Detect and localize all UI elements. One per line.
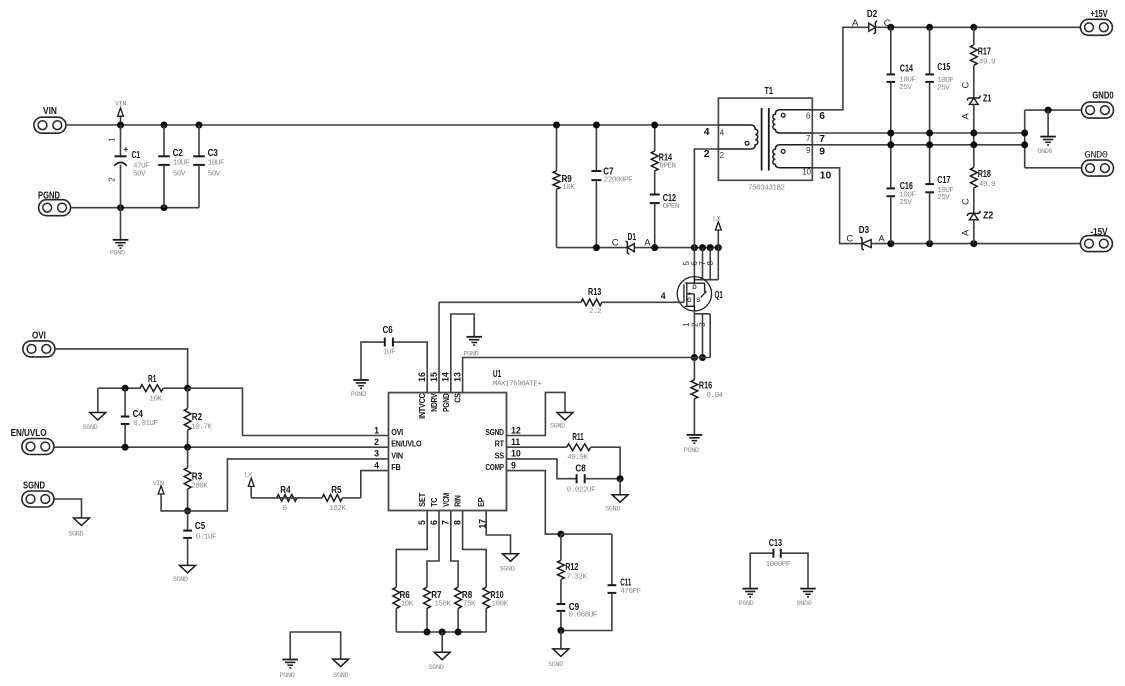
- svg-text:4: 4: [661, 291, 666, 301]
- svg-text:GND0: GND0: [797, 600, 812, 608]
- svg-text:T1: T1: [765, 85, 774, 97]
- junction: [715, 244, 722, 251]
- wire Q1 drain pin8: [717, 248, 719, 280]
- capacitor C17: [925, 145, 953, 244]
- ground SGND: [550, 413, 573, 431]
- svg-text:VIN: VIN: [391, 451, 403, 460]
- junction: [557, 627, 564, 634]
- junction: [691, 244, 698, 251]
- svg-text:11: 11: [511, 437, 520, 447]
- capacitor C3: [193, 125, 224, 208]
- junction: [926, 24, 933, 31]
- diode D1 (schottky): [612, 231, 651, 254]
- svg-text:12: 12: [511, 425, 521, 435]
- svg-text:10UF: 10UF: [173, 160, 189, 168]
- svg-text:NDRV: NDRV: [430, 393, 439, 412]
- svg-text:SGND: SGND: [605, 505, 620, 513]
- svg-text:S: S: [696, 298, 700, 304]
- svg-text:162K: 162K: [329, 505, 346, 513]
- svg-text:6: 6: [819, 111, 825, 122]
- svg-text:VIN: VIN: [115, 101, 126, 109]
- svg-text:D2: D2: [867, 8, 877, 20]
- T1 secondary winding 1: [773, 110, 812, 133]
- svg-text:SGND: SGND: [68, 531, 83, 539]
- junction: [617, 475, 624, 482]
- resistor R14: [651, 125, 675, 195]
- svg-text:50V: 50V: [133, 171, 146, 179]
- diode D3 (schottky): [846, 224, 885, 250]
- svg-text:22000PF: 22000PF: [604, 176, 632, 184]
- svg-text:C8: C8: [575, 462, 585, 474]
- svg-text:8: 8: [452, 520, 462, 525]
- svg-text:SGND: SGND: [23, 480, 45, 492]
- svg-text:C13: C13: [769, 537, 782, 549]
- svg-text:EP: EP: [477, 498, 486, 507]
- svg-text:RT: RT: [495, 440, 505, 449]
- svg-text:PGND: PGND: [280, 672, 295, 680]
- ground PGND (C6): [351, 380, 369, 399]
- svg-text:SS: SS: [495, 451, 504, 460]
- svg-text:10: 10: [511, 449, 521, 459]
- wire gnd tie right: [1024, 110, 1026, 168]
- svg-text:7.32K: 7.32K: [566, 573, 587, 581]
- svg-text:8: 8: [706, 261, 715, 266]
- svg-text:10: 10: [802, 167, 811, 176]
- svg-text:PGND: PGND: [739, 600, 754, 608]
- svg-text:7: 7: [441, 520, 451, 525]
- svg-text:10K: 10K: [149, 396, 162, 404]
- svg-text:100K: 100K: [492, 601, 509, 609]
- ground SGND: [429, 632, 451, 672]
- svg-text:R16: R16: [699, 379, 712, 391]
- wire GND0 stem: [1047, 110, 1049, 137]
- svg-text:10K: 10K: [401, 601, 414, 609]
- svg-text:25V: 25V: [899, 199, 912, 207]
- junction: [699, 354, 706, 361]
- svg-text:0.1UF: 0.1UF: [196, 533, 216, 541]
- ground SGND: [548, 631, 569, 670]
- svg-text:R13: R13: [588, 286, 601, 298]
- junction: [557, 531, 564, 538]
- svg-text:EN/UVLO: EN/UVLO: [11, 427, 47, 439]
- capacitor C13: [750, 537, 808, 589]
- junction: [1045, 107, 1052, 114]
- svg-text:VCM: VCM: [442, 493, 451, 507]
- svg-text:C16: C16: [900, 180, 913, 192]
- resistor R11: [507, 431, 621, 479]
- wire RIN: [463, 511, 487, 588]
- junction: [553, 122, 560, 129]
- ground SGND: [173, 538, 196, 584]
- junction: [161, 122, 168, 129]
- wire T1 pin6 to D2: [812, 27, 869, 110]
- wire COMP to C11: [561, 533, 612, 535]
- svg-text:Z2: Z2: [983, 210, 993, 222]
- power LX: [713, 215, 721, 247]
- resistor R6: [393, 587, 414, 632]
- svg-text:LX: LX: [244, 472, 252, 480]
- ground PGND (bridge): [280, 660, 298, 680]
- transistor Q1: [661, 261, 723, 327]
- op-amp U1 MAX17690: [374, 368, 542, 528]
- resistor R9: [553, 125, 575, 248]
- svg-text:A: A: [961, 229, 972, 236]
- svg-text:0.04: 0.04: [707, 392, 724, 400]
- T1 core: [761, 108, 763, 171]
- svg-text:47UF: 47UF: [133, 162, 149, 170]
- svg-text:R2: R2: [192, 411, 202, 423]
- wire to VIN pin: [188, 459, 389, 511]
- svg-text:OPEN: OPEN: [663, 203, 679, 211]
- T1 primary winding: [719, 125, 758, 149]
- transformer T1: [704, 85, 832, 193]
- ground PGND (C13): [739, 589, 758, 608]
- svg-text:C14: C14: [900, 63, 913, 75]
- capacitor C16: [887, 145, 916, 244]
- wire pin7 rail: [812, 132, 1024, 134]
- svg-text:3: 3: [374, 449, 379, 459]
- power VIN (R3): [153, 480, 188, 511]
- wire ground bridge: [290, 632, 341, 660]
- junction: [970, 24, 977, 31]
- svg-text:750343182: 750343182: [748, 185, 784, 193]
- junction: [455, 629, 462, 636]
- wire clamp rail right: [635, 247, 718, 249]
- ground PGND (input): [110, 240, 128, 258]
- svg-text:25V: 25V: [937, 194, 950, 202]
- svg-text:16: 16: [417, 372, 427, 382]
- svg-text:C6: C6: [383, 324, 393, 336]
- svg-text:4: 4: [720, 129, 725, 138]
- ground SGND: [500, 554, 519, 574]
- svg-text:C: C: [846, 234, 853, 245]
- wire Q1 drain pin7: [709, 248, 711, 280]
- wire EP: [486, 511, 510, 554]
- capacitor C5: [183, 511, 216, 541]
- wire Z2 anode: [973, 220, 975, 244]
- ground SGND: [83, 388, 106, 432]
- svg-text:R18: R18: [978, 168, 991, 180]
- wire EN/UVLO: [54, 446, 389, 448]
- wire +15V rail: [875, 26, 1080, 28]
- wire Q1 source pin3: [709, 314, 711, 358]
- resistor R12: [558, 534, 588, 604]
- wire SGND pigtail: [54, 499, 82, 518]
- svg-text:SGND: SGND: [429, 664, 444, 672]
- wire OVI: [55, 349, 188, 388]
- svg-text:15: 15: [429, 372, 439, 382]
- svg-text:PGND: PGND: [38, 189, 60, 201]
- junction: [593, 122, 600, 129]
- wire -15V rail: [871, 243, 1080, 245]
- wire Q1 drain: [693, 248, 695, 277]
- wire Z1 anode: [973, 104, 975, 133]
- svg-text:R7: R7: [431, 589, 441, 601]
- resistor R13: [439, 286, 684, 316]
- ground GND0: [1037, 137, 1056, 156]
- svg-text:C: C: [961, 81, 972, 88]
- svg-text:75K: 75K: [463, 601, 476, 609]
- svg-text:C3: C3: [208, 147, 218, 159]
- svg-text:SGND: SGND: [83, 424, 98, 432]
- svg-text:GND0: GND0: [1084, 149, 1107, 161]
- svg-text:U1: U1: [493, 368, 501, 380]
- svg-text:VIN: VIN: [153, 480, 164, 488]
- wire SET: [396, 511, 427, 588]
- svg-text:SGND: SGND: [550, 422, 565, 430]
- capacitor C12: [650, 192, 679, 248]
- svg-text:D: D: [692, 285, 697, 291]
- svg-text:Q1: Q1: [715, 289, 723, 301]
- junction: [887, 24, 894, 31]
- svg-text:A: A: [644, 237, 651, 248]
- svg-text:2: 2: [108, 177, 117, 182]
- svg-text:-15V: -15V: [1090, 226, 1107, 238]
- wire SGND pin: [507, 392, 566, 435]
- svg-text:COMP: COMP: [485, 463, 503, 472]
- junction: [887, 141, 894, 148]
- resistor R1: [125, 373, 188, 404]
- junction: [926, 240, 933, 247]
- svg-text:7: 7: [806, 134, 811, 143]
- svg-text:LX: LX: [713, 215, 721, 223]
- wire C9 bottom: [560, 611, 562, 631]
- junction: [161, 204, 168, 211]
- svg-text:A: A: [852, 18, 859, 29]
- svg-text:EN/UVLO: EN/UVLO: [391, 440, 421, 449]
- svg-text:0.068UF: 0.068UF: [569, 612, 597, 620]
- wire R4-R5: [297, 497, 322, 499]
- svg-text:9: 9: [819, 147, 825, 158]
- svg-text:2: 2: [720, 151, 725, 160]
- svg-text:5: 5: [417, 520, 427, 525]
- wire gnd tie C14 col: [890, 133, 892, 145]
- svg-text:10.7K: 10.7K: [191, 423, 212, 431]
- resistor R17: [970, 27, 995, 98]
- connector J-EN: [11, 427, 54, 455]
- svg-text:R12: R12: [565, 561, 578, 573]
- svg-text:C4: C4: [133, 408, 143, 420]
- svg-text:10UF: 10UF: [208, 160, 224, 168]
- svg-text:1: 1: [108, 137, 117, 142]
- svg-text:C15: C15: [937, 61, 950, 73]
- resistor R5: [322, 484, 361, 513]
- wire T1 pin2 to LX: [694, 149, 718, 248]
- connector J-VIN: [34, 105, 66, 133]
- resistor R8: [455, 587, 476, 632]
- svg-text:10K: 10K: [562, 184, 575, 192]
- wire to OVI pin: [188, 388, 389, 435]
- svg-text:2: 2: [704, 149, 710, 160]
- svg-text:OVI: OVI: [32, 330, 46, 342]
- svg-text:13: 13: [452, 372, 462, 382]
- junction: [184, 507, 191, 514]
- resistor R7: [424, 587, 452, 632]
- wire gnd tie R17 col: [973, 133, 975, 145]
- svg-text:9: 9: [511, 460, 516, 470]
- junction: [926, 130, 933, 137]
- svg-text:50V: 50V: [173, 171, 186, 179]
- svg-text:9: 9: [806, 146, 811, 155]
- svg-text:C: C: [961, 198, 972, 205]
- svg-text:4: 4: [374, 460, 379, 470]
- svg-text:4: 4: [704, 127, 710, 138]
- svg-text:6: 6: [429, 520, 439, 525]
- wire VIN rail: [66, 124, 719, 126]
- svg-text:MAX17690ATE+: MAX17690ATE+: [493, 381, 543, 389]
- capacitor C6: [361, 324, 395, 380]
- resistor R10: [483, 587, 509, 632]
- T1 secondary winding 2: [773, 145, 812, 168]
- svg-text:SGND: SGND: [333, 672, 348, 680]
- junction: [117, 122, 124, 129]
- capacitor C7: [591, 125, 632, 248]
- junction: [651, 244, 658, 251]
- svg-text:10: 10: [820, 171, 832, 182]
- resistor R18: [970, 145, 995, 214]
- svg-text:150K: 150K: [434, 601, 451, 609]
- wire Q1 drain pin6: [702, 248, 704, 280]
- svg-text:1UF: 1UF: [383, 348, 395, 356]
- svg-text:GND0: GND0: [1092, 90, 1113, 102]
- resistor R4: [251, 484, 297, 513]
- svg-text:GND0: GND0: [1037, 148, 1052, 156]
- capacitor C1 (polarized): [108, 125, 150, 208]
- junction: [196, 122, 203, 129]
- junction: [122, 444, 129, 451]
- svg-text:R8: R8: [462, 589, 472, 601]
- svg-text:C11: C11: [620, 577, 631, 589]
- capacitor C11: [561, 534, 641, 630]
- resistor R2: [184, 388, 212, 447]
- ground GND0 (C13): [797, 589, 816, 608]
- junction: [184, 385, 191, 392]
- wire: [120, 208, 122, 240]
- svg-text:25V: 25V: [937, 84, 950, 92]
- junction: [926, 141, 933, 148]
- ground SGND: [68, 518, 89, 539]
- svg-text:C2: C2: [173, 147, 183, 159]
- svg-text:0.01UF: 0.01UF: [133, 420, 157, 428]
- svg-text:SGND: SGND: [485, 428, 504, 437]
- svg-text:R3: R3: [192, 470, 202, 482]
- junction: [122, 385, 129, 392]
- wire GND0 bottom: [1025, 167, 1082, 169]
- power VIN: [115, 101, 126, 126]
- wire NDRV: [438, 302, 440, 392]
- junction: [970, 240, 977, 247]
- svg-text:R5: R5: [331, 484, 341, 496]
- connector J-GND0b: [1082, 149, 1114, 176]
- svg-text:SGND: SGND: [173, 576, 188, 584]
- capacitor C4: [121, 388, 158, 447]
- resistor R3: [184, 447, 208, 511]
- capacitor C8: [507, 459, 621, 495]
- wire Q1 source pin2: [702, 314, 704, 358]
- connector J-OVI: [23, 330, 55, 357]
- wire: [98, 387, 125, 389]
- svg-text:R17: R17: [978, 46, 991, 58]
- svg-text:D1: D1: [628, 231, 636, 243]
- power LX (R4): [244, 472, 254, 498]
- svg-text:PGND: PGND: [110, 250, 125, 258]
- svg-text:Z1: Z1: [983, 93, 992, 105]
- junction: [707, 244, 714, 251]
- wire pin9 rail: [812, 144, 1024, 146]
- svg-text:470PF: 470PF: [620, 588, 640, 596]
- ground PGND (R16): [684, 435, 702, 455]
- zener diode Z2: [961, 198, 994, 236]
- ground PGND (pin14): [463, 337, 482, 359]
- svg-text:C5: C5: [195, 520, 205, 532]
- ground SGND: [605, 479, 628, 514]
- wire INTVCC: [393, 342, 427, 393]
- svg-text:+15V: +15V: [1090, 8, 1107, 20]
- svg-text:VIN: VIN: [43, 105, 57, 117]
- svg-text:6: 6: [806, 112, 811, 121]
- svg-text:R4: R4: [280, 484, 290, 496]
- svg-text:49.9: 49.9: [979, 181, 995, 189]
- wire gnd tie C15 col: [929, 133, 931, 145]
- junction: [970, 141, 977, 148]
- connector J+15V: [1080, 8, 1112, 36]
- junction: [117, 204, 124, 211]
- svg-text:R10: R10: [490, 589, 503, 601]
- svg-text:PGND: PGND: [684, 447, 699, 455]
- svg-text:0.022UF: 0.022UF: [567, 486, 595, 494]
- svg-text:RIN: RIN: [454, 495, 463, 507]
- svg-text:R11: R11: [572, 431, 583, 443]
- connector J-PGND: [38, 189, 71, 215]
- zener diode Z1: [961, 81, 992, 119]
- svg-text:25V: 25V: [899, 84, 912, 92]
- ground SGND: [333, 659, 349, 680]
- svg-text:R1: R1: [148, 373, 156, 385]
- svg-text:TC: TC: [430, 497, 439, 507]
- wire CS: [463, 358, 711, 393]
- svg-text:49.9: 49.9: [979, 59, 995, 67]
- junction: [651, 122, 658, 129]
- junction: [887, 130, 894, 137]
- svg-text:OVI: OVI: [391, 428, 403, 437]
- svg-text:2: 2: [374, 437, 379, 447]
- svg-text:SET: SET: [418, 493, 427, 507]
- svg-text:49.9K: 49.9K: [567, 454, 588, 462]
- wire Q1 source: [693, 311, 695, 358]
- connector J-GND0a: [1082, 90, 1114, 118]
- svg-text:PGND: PGND: [442, 393, 451, 412]
- wire COMP: [507, 471, 561, 534]
- wire TC: [427, 511, 439, 588]
- wire GND0 top: [1025, 109, 1082, 111]
- svg-text:FB: FB: [391, 463, 401, 472]
- svg-text:1000PF: 1000PF: [766, 561, 790, 569]
- capacitor C15: [925, 27, 953, 133]
- wire PGND pin: [451, 314, 474, 393]
- connector J-SGND: [22, 480, 54, 508]
- svg-text:2.2: 2.2: [589, 308, 601, 316]
- svg-text:SGND: SGND: [500, 566, 515, 574]
- svg-text:280K: 280K: [191, 482, 208, 490]
- svg-text:7: 7: [819, 134, 825, 145]
- wire Q1 drain bracket: [694, 279, 718, 281]
- svg-text:1: 1: [374, 425, 379, 435]
- junction: [184, 444, 191, 451]
- svg-text:INTVCC: INTVCC: [418, 393, 427, 419]
- svg-text:SGND: SGND: [548, 661, 563, 669]
- svg-text:50V: 50V: [208, 171, 221, 179]
- svg-text:14: 14: [441, 372, 451, 382]
